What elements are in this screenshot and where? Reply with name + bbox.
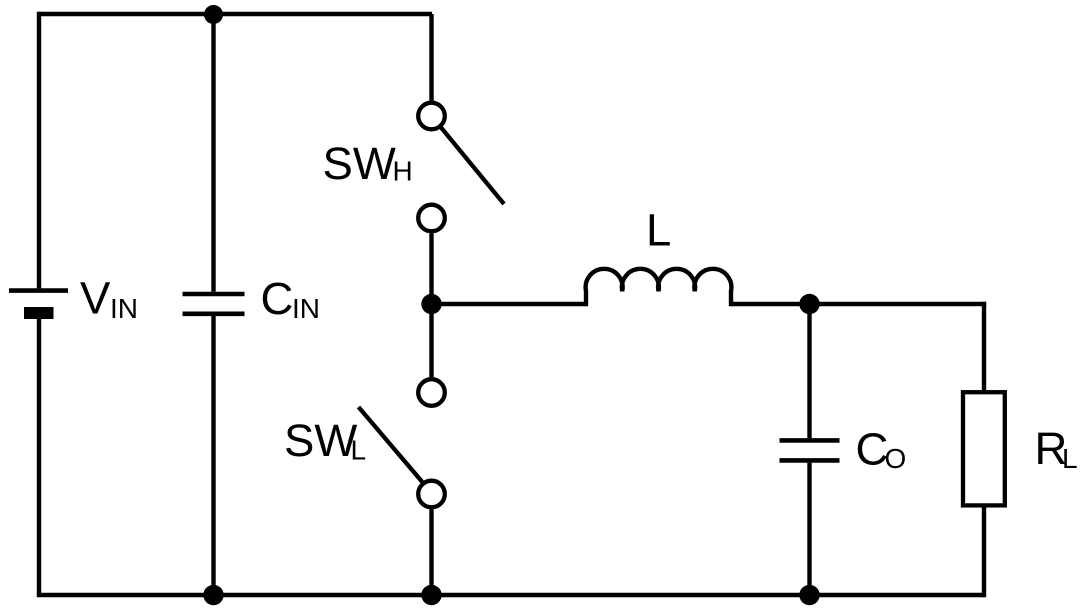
wire left rail lower: [37, 319, 41, 595]
wire SWL top lead: [429, 304, 433, 377]
switch SWL pole contact: [418, 379, 445, 406]
wire top rail: [39, 12, 432, 16]
switch SWH throw contact: [418, 205, 445, 232]
node output: [799, 294, 819, 314]
node bottom CIN: [203, 585, 223, 605]
wire CIN lower lead: [211, 316, 215, 595]
wire CO upper lead: [807, 304, 811, 438]
node bottom SWL: [421, 585, 441, 605]
svg-text:IN: IN: [292, 293, 320, 324]
switch SWH pole contact: [418, 103, 445, 130]
capacitor CO top plate: [780, 438, 840, 443]
svg-text:O: O: [885, 443, 907, 474]
capacitor CIN bottom plate: [183, 311, 245, 316]
svg-text:V: V: [80, 273, 111, 324]
svg-text:L: L: [1062, 443, 1078, 474]
switch SWL throw contact: [418, 481, 445, 508]
switch SWL blade: [359, 407, 424, 483]
capacitor CIN top plate: [183, 292, 245, 297]
battery VIN positive plate: [9, 288, 68, 293]
wire mid node to inductor: [432, 302, 587, 306]
node top (CIN tap): [204, 5, 223, 24]
node switch midpoint: [421, 294, 441, 314]
capacitor CO bottom plate: [780, 458, 840, 463]
svg-text:SW: SW: [284, 415, 357, 466]
wire SWH upper lead: [429, 14, 433, 101]
svg-text:C: C: [261, 273, 294, 324]
wire right rail lower: [982, 508, 986, 598]
switch SWH blade: [440, 127, 504, 204]
wire SWL throw to bottom rail: [429, 509, 433, 595]
battery VIN negative plate: [24, 307, 54, 319]
wire CIN upper lead: [211, 15, 215, 292]
svg-text:L: L: [351, 435, 367, 466]
wire inductor to output node: [731, 302, 810, 306]
svg-text:C: C: [856, 423, 889, 474]
svg-text:L: L: [646, 205, 671, 256]
wire SWH throw to mid node: [429, 233, 433, 304]
wire CO lower lead: [807, 463, 811, 595]
wire output node to right rail: [810, 302, 987, 306]
node bottom CO: [799, 585, 819, 605]
wire bottom rail: [37, 593, 984, 597]
svg-text:H: H: [393, 155, 413, 186]
wire right rail upper: [982, 302, 986, 390]
wire left rail upper: [37, 12, 41, 289]
svg-text:SW: SW: [323, 138, 396, 189]
resistor RL body: [963, 392, 1005, 505]
svg-text:IN: IN: [110, 293, 138, 324]
inductor L: [586, 269, 732, 306]
